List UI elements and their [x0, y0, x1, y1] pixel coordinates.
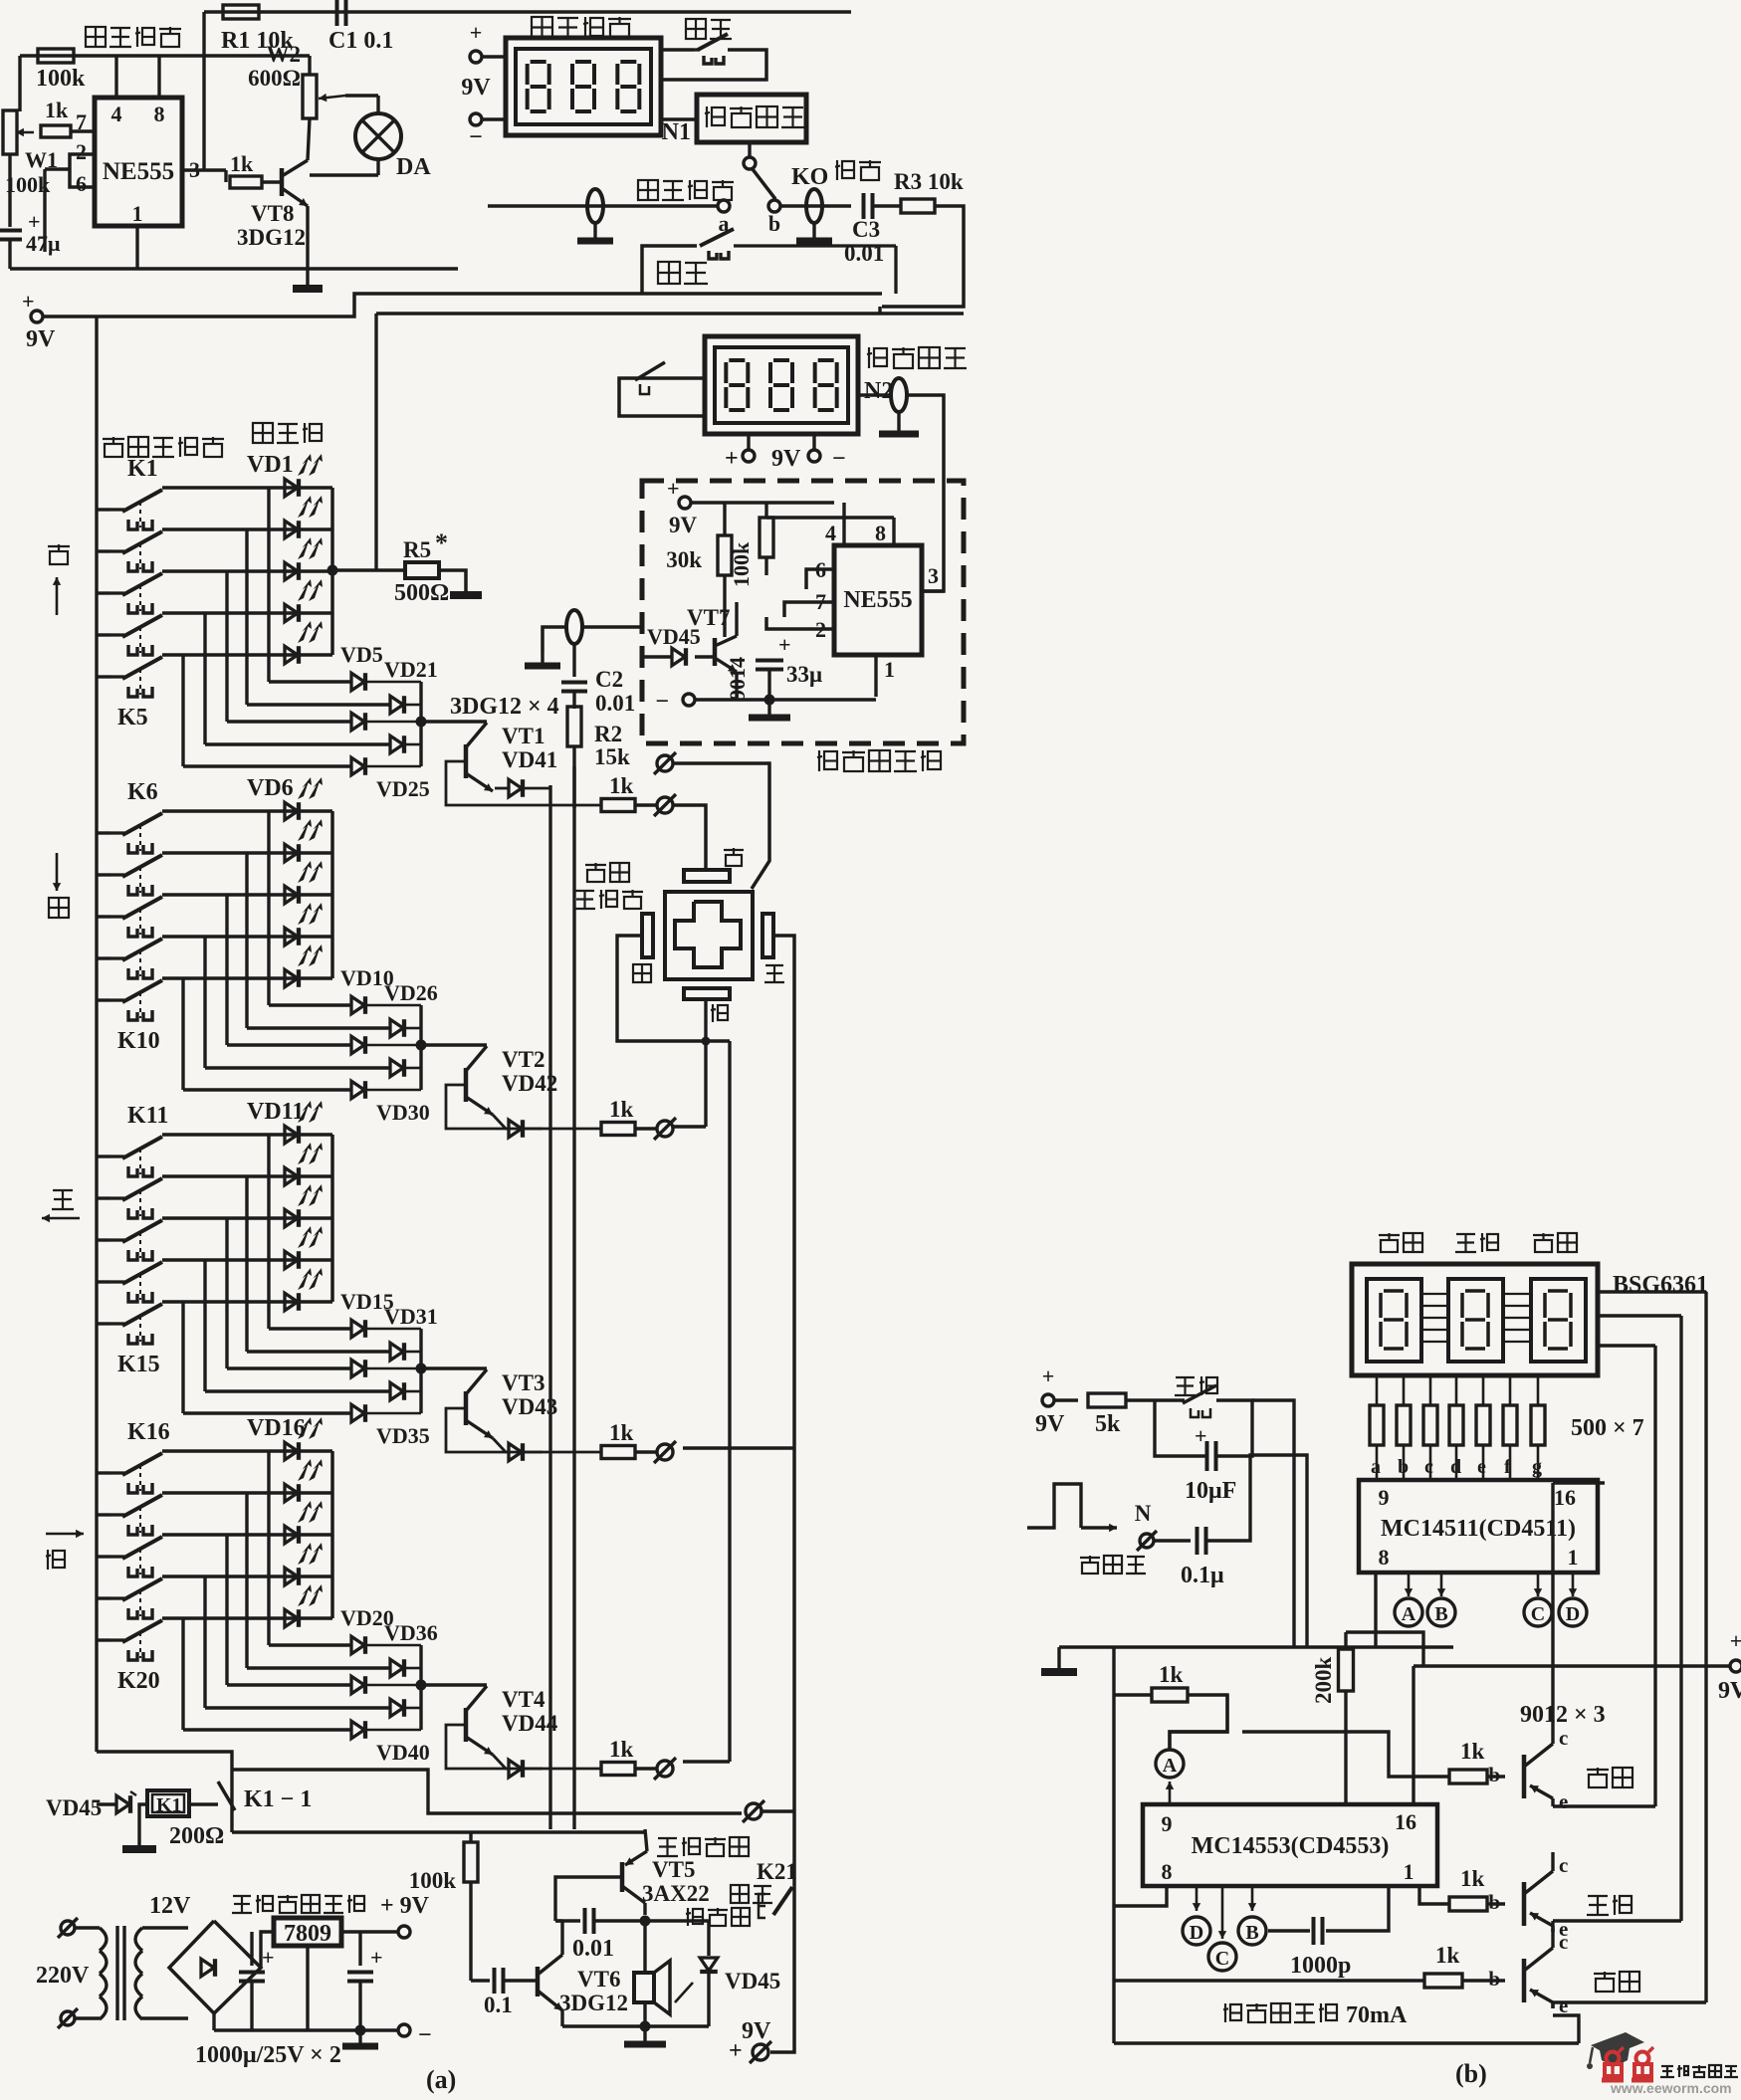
svg-text:b: b [1398, 1456, 1409, 1478]
diode cluster 3 group2 [390, 1059, 403, 1077]
wire display common 1 [1598, 1344, 1655, 1347]
svg-text:VD1: VD1 [247, 452, 294, 478]
diode VD45 (box) [672, 648, 685, 666]
wire stair 2 [225, 1218, 228, 1368]
svg-text:+: + [667, 476, 680, 501]
label question-counter 提问计数 [532, 17, 552, 38]
svg-text:C2: C2 [595, 667, 623, 692]
speaker [634, 1973, 654, 2002]
bridge rectifier [169, 1921, 261, 2013]
resistor 1k row [601, 1763, 635, 1776]
resistor 200k [1344, 1632, 1347, 1650]
wire key row 3 [162, 1258, 332, 1261]
ic U3 MC14511 [1359, 1480, 1598, 1573]
key bar right 右 [762, 914, 773, 957]
svg-text:9V: 9V [669, 513, 698, 537]
transistor 9012 #2 [1522, 1882, 1527, 1926]
label answer-counter 应答计数 [868, 347, 870, 368]
node A2 [1156, 1750, 1184, 1778]
svg-text:600Ω: 600Ω [248, 66, 301, 91]
wire d-out [405, 704, 421, 707]
wire R5 to gnd [439, 570, 466, 591]
svg-text:N2: N2 [864, 378, 893, 404]
svg-text:VD21: VD21 [384, 657, 438, 682]
svg-text:DA: DA [396, 154, 431, 180]
svg-text:f: f [1504, 1456, 1511, 1478]
svg-text:a: a [1371, 1456, 1381, 1478]
wire 9V rail [43, 294, 882, 316]
svg-text:b: b [1488, 1763, 1500, 1786]
wire pin4 stub [114, 56, 117, 98]
svg-text:VD45: VD45 [647, 624, 701, 649]
cross shape [675, 902, 741, 967]
wire 1k row1 right [674, 805, 706, 872]
wire long vert x577 [572, 766, 575, 1829]
logo 虫虫 red [1607, 2052, 1620, 2065]
wire stair 2 [225, 895, 228, 1045]
diode cluster 0 group3 [351, 1320, 364, 1338]
wire base loop [446, 1725, 601, 1769]
cluster bus [419, 682, 422, 766]
svg-text:1k: 1k [609, 773, 634, 798]
diode cluster 4 group1 [351, 757, 364, 775]
wire stair 4 [181, 1618, 184, 1730]
wire pin8 stub [157, 56, 160, 98]
transistor VT4 [421, 1683, 487, 1686]
terminal +9V left [31, 311, 43, 322]
svg-text:N1: N1 [662, 119, 691, 145]
logo text 电子下载站 [1661, 2065, 1673, 2067]
svg-text:500Ω: 500Ω [394, 580, 449, 606]
diode cluster 4 group3 [351, 1404, 364, 1422]
wire d-out [405, 1667, 421, 1670]
svg-text:K21: K21 [757, 1859, 797, 1884]
wire base loop [446, 1408, 601, 1452]
wire stair 4 [181, 655, 184, 766]
wire right-bar down [773, 936, 794, 1808]
switch (answer counter) [619, 378, 705, 416]
svg-text:0.01: 0.01 [572, 1936, 614, 1962]
wire emitter row1 [1551, 1804, 1554, 1806]
op-amp U1 NE555 timer [95, 98, 182, 226]
wire key row 1 [162, 527, 332, 530]
wire d-out [405, 1707, 421, 1710]
svg-text:9012 × 3: 9012 × 3 [1520, 1702, 1606, 1728]
wire d-out [366, 1412, 421, 1415]
ground jack left [593, 223, 596, 241]
switch K1+1 [97, 549, 110, 552]
node D2 [1196, 1886, 1198, 1911]
resistor 1k row [601, 799, 635, 812]
svg-text:3DG12 × 4: 3DG12 × 4 [450, 694, 559, 720]
label down 下 [49, 898, 69, 918]
wire bridge out [261, 1932, 274, 1968]
wire key row 2 [162, 1533, 332, 1536]
wire d-out [366, 1089, 421, 1092]
label changeover 转换开关 [638, 180, 658, 200]
display BSG6361 outer [1352, 1264, 1598, 1375]
svg-text:MC14553(CD4553): MC14553(CD4553) [1192, 1833, 1390, 1859]
svg-text:16: 16 [1395, 1809, 1416, 1834]
label up 上 [48, 545, 70, 547]
wire vert x733 [728, 1041, 731, 1762]
transistor 9012 #1 [1522, 1755, 1527, 1798]
svg-text:9: 9 [1162, 1811, 1173, 1836]
wire pin2-6 tie [70, 154, 95, 187]
wire VT8 collector [308, 118, 310, 160]
svg-text:K5: K5 [117, 705, 148, 731]
diode cluster 1 group3 [390, 1343, 403, 1361]
ground R5 [450, 591, 482, 599]
label 电源供给电路 [233, 1895, 251, 1897]
wire key row 0 [162, 809, 332, 812]
svg-text:c: c [1559, 1726, 1568, 1750]
LED VD2 group4 [285, 1526, 298, 1544]
terminal + left [470, 51, 482, 63]
display N2 应答计数 [705, 336, 858, 434]
wire key row 3 [162, 935, 332, 938]
svg-text:VD41: VD41 [502, 747, 557, 772]
wire stair 3 [203, 613, 206, 744]
svg-text:4: 4 [111, 102, 122, 126]
wire stair 1 [245, 1493, 248, 1668]
node B [1440, 1573, 1443, 1596]
label 抗干扰电路 [818, 750, 820, 771]
svg-text:+: + [1195, 1423, 1207, 1448]
diode VD42 [493, 1115, 509, 1129]
wire pin8 left [1114, 1886, 1167, 1906]
wire clear down [1252, 1400, 1294, 1647]
switch K11+1 [97, 1196, 110, 1199]
diode cluster 0 group2 [351, 996, 364, 1014]
resistor 500 #4 [1455, 1375, 1458, 1405]
jack left (oval) [587, 189, 603, 223]
diode cluster 2 group2 [351, 1036, 364, 1054]
terminal - (display2) [812, 434, 815, 450]
switch K16+4 [97, 1638, 110, 1641]
wire key row 2 [162, 569, 332, 572]
switch K11+2 [97, 1238, 110, 1241]
wire d-out [366, 1729, 421, 1732]
logo cap [1591, 2032, 1644, 2056]
label 内测 [658, 262, 680, 284]
terminal + (display2) [747, 434, 750, 450]
wire d-out [405, 1027, 421, 1030]
diode VD43 [493, 1438, 509, 1452]
wire collector up 2 [1551, 1852, 1554, 1864]
svg-text:+: + [22, 289, 35, 314]
resistor 1k (b row1) [1114, 1693, 1152, 1696]
ground (b) [1057, 1642, 1060, 1645]
wire d-out [366, 1044, 421, 1047]
resistor 500 #1 [1376, 1375, 1379, 1405]
label 十位 [1456, 1233, 1475, 1235]
svg-text:1k: 1k [230, 151, 254, 176]
terminal o-slash [635, 1450, 656, 1453]
terminal o-slash 9V bottom [753, 2044, 768, 2060]
wire stair 2 [225, 571, 228, 722]
diode cluster 3 group4 [390, 1699, 403, 1717]
wire base loop [446, 1085, 601, 1129]
switch box internal-test 内测 [642, 246, 697, 294]
wire stair 3 [203, 1576, 206, 1708]
wire collector up 1 [1551, 1483, 1554, 1737]
svg-text:g: g [1532, 1456, 1542, 1478]
transistor Q7 VT7 9014 [713, 638, 718, 666]
terminal 9V right [1730, 1660, 1741, 1672]
switch clear (b) [1155, 1398, 1185, 1401]
label left 左 [53, 1189, 73, 1191]
label 内测应答键 [731, 1885, 749, 1903]
svg-text:9V: 9V [461, 75, 491, 101]
svg-text:c: c [1559, 1853, 1568, 1877]
svg-text:0.1: 0.1 [484, 1993, 513, 2017]
wire d-out [366, 681, 421, 684]
label signal-in 信号人 [1080, 1557, 1100, 1559]
wire rail to b-side [878, 307, 881, 314]
ground (box) [767, 700, 770, 718]
wire base loop [446, 761, 601, 805]
resistor 100k vert [764, 503, 767, 518]
switch K21 [773, 1887, 792, 1915]
key pad box [665, 892, 753, 979]
wire 100k hang [469, 1832, 472, 1843]
svg-text:B: B [1245, 1922, 1258, 1944]
resistor 1k row [601, 1446, 635, 1459]
wire collector up 3 [1551, 1929, 1554, 1941]
label 个位 [1594, 1973, 1616, 1975]
wire relay frame [97, 1802, 117, 1805]
wire key row 4 [162, 653, 332, 656]
svg-text:C3: C3 [852, 217, 880, 242]
label 个位 [1533, 1234, 1554, 1236]
LED VD1 group3 [285, 1167, 298, 1185]
svg-text:47μ: 47μ [26, 231, 61, 256]
wire rail Q [232, 1830, 645, 1833]
resistor 500 #5 [1482, 1375, 1485, 1405]
diode VD44 [493, 1755, 509, 1769]
resistor 1k (base VT8) [230, 176, 262, 188]
svg-text:100k: 100k [729, 541, 754, 587]
wire left-bar loop [617, 936, 730, 1041]
transistor VT2 [421, 1043, 487, 1046]
display digit 1 [1448, 1279, 1503, 1362]
wire VT8 emitter down [306, 206, 309, 286]
svg-text:VD30: VD30 [376, 1100, 430, 1125]
wire d-out [405, 1351, 421, 1354]
svg-text:1k: 1k [609, 1737, 634, 1762]
resistor R2 15k [567, 707, 581, 746]
resistor R1 10k [223, 5, 259, 19]
diode cluster 1 group1 [390, 696, 403, 714]
resistor R5 500 [405, 562, 439, 578]
junction LED bus R5 [327, 565, 338, 576]
transistor Q8 VT8 3DG12 [280, 168, 285, 196]
display digit 2 [1531, 1279, 1586, 1362]
svg-text:e: e [1559, 1994, 1568, 2017]
wire stair 2 [225, 1535, 228, 1685]
svg-text:1: 1 [132, 201, 143, 226]
LED VD4 group1 [285, 646, 298, 664]
resistor R3 10k [874, 204, 902, 207]
LED VD2 group1 [285, 562, 298, 580]
capacitor C3 0.01 [862, 193, 866, 219]
svg-text:K10: K10 [117, 1028, 160, 1054]
wire d-out [366, 1367, 421, 1370]
svg-text:1k: 1k [1159, 1662, 1184, 1687]
svg-text:3: 3 [928, 563, 939, 588]
svg-text:1k: 1k [609, 1097, 634, 1122]
wire bottom-bar down [704, 999, 707, 1041]
wire stair 1 [245, 853, 248, 1028]
capacitor C filt1 [250, 1932, 253, 1966]
svg-text:15k: 15k [594, 744, 630, 769]
wire key row 2 [162, 893, 332, 896]
LED VD0 group1 [285, 479, 298, 497]
wire stair 0 [267, 1451, 270, 1645]
svg-text:B: B [1434, 1603, 1447, 1625]
diode cluster 0 group4 [351, 1636, 364, 1654]
terminal o-slash [635, 1767, 656, 1770]
wire pin3 out [182, 168, 226, 171]
wire stair 4 [181, 1302, 184, 1413]
wire gnd row [1059, 1645, 1453, 1648]
svg-text:200k: 200k [1311, 1657, 1336, 1705]
relay K1 coil [147, 1790, 189, 1816]
ground jack right [812, 223, 815, 241]
wire key row 4 [162, 976, 332, 979]
svg-text:R2: R2 [594, 722, 622, 746]
switch K16+2 [97, 1555, 110, 1558]
wire d-out [366, 1684, 421, 1687]
switch K1+2 [97, 591, 110, 594]
svg-text:+: + [262, 1945, 275, 1970]
resistor 500 #2 [1403, 1375, 1406, 1405]
capacitor 0.1u [1155, 1539, 1191, 1542]
label clear 清零 [686, 19, 706, 39]
pulse waveform symbol [1027, 1484, 1081, 1528]
diode VD41 [495, 787, 509, 790]
diode cluster 4 group2 [351, 1081, 364, 1099]
capacitor 10uF [1205, 1441, 1209, 1471]
terminal o-slash up [657, 755, 673, 771]
wire stair 0 [267, 811, 270, 1005]
wire stair 3 [203, 937, 206, 1068]
junction cluster [416, 717, 427, 728]
svg-text:+: + [1730, 1628, 1741, 1653]
capacitor 47u [8, 153, 11, 227]
label 发光管 [253, 423, 273, 443]
wire d-out [405, 1390, 421, 1393]
LED VD3 group2 [285, 928, 298, 945]
transistor VT1 [421, 720, 487, 723]
svg-text:70mA: 70mA [1346, 2002, 1408, 2028]
svg-text:b: b [1488, 1890, 1500, 1914]
resistor 1k row [601, 1123, 635, 1136]
wire 30k top [723, 503, 726, 535]
lamp DA [355, 113, 401, 159]
ground VT8 [293, 285, 323, 293]
svg-text:1: 1 [1404, 1859, 1415, 1884]
svg-text:200Ω: 200Ω [169, 1823, 224, 1849]
wire 7809 out [341, 1930, 398, 1933]
diode cluster 2 group3 [351, 1360, 364, 1377]
switch K11+3 [97, 1280, 110, 1283]
LED VD3 group4 [285, 1568, 298, 1585]
node C2 [1221, 1886, 1224, 1939]
svg-text:0.01: 0.01 [595, 691, 635, 716]
resistor 100k (sound) [464, 1842, 478, 1882]
wire left bus turn [97, 1752, 232, 1832]
svg-text:−: − [655, 689, 669, 715]
label 百位 [1379, 1234, 1400, 1236]
node D [1572, 1573, 1575, 1596]
wire sound bottom [560, 2010, 563, 2026]
svg-text:K15: K15 [117, 1352, 160, 1377]
LED cathode bus [330, 1135, 334, 1302]
svg-text:9V: 9V [26, 326, 56, 352]
svg-text:9V: 9V [771, 446, 801, 472]
junction cluster [416, 1364, 427, 1374]
svg-text:VD45: VD45 [46, 1795, 102, 1820]
terminal a [718, 200, 730, 212]
resistor 1k (b) row2 [1449, 1897, 1487, 1911]
ic U4 MC14553 [1143, 1804, 1437, 1886]
label 外测提问键 [103, 438, 124, 440]
svg-text:K16: K16 [127, 1419, 170, 1445]
wire top row [204, 10, 851, 14]
wire d-out [366, 1644, 421, 1647]
svg-text:VD25: VD25 [376, 776, 430, 801]
resistor 5k [1088, 1393, 1126, 1407]
cluster bus [419, 1645, 422, 1730]
LED cathode bus [330, 1451, 334, 1618]
wire key row 1 [162, 1174, 332, 1177]
wire o3 right [683, 1446, 794, 1450]
wire emitter row3 [1551, 2002, 1554, 2008]
transistor Q6 VT6 3DG12 [536, 1967, 541, 1996]
svg-text:6: 6 [76, 171, 87, 196]
svg-text:16: 16 [1554, 1485, 1576, 1510]
svg-text:8: 8 [154, 102, 165, 126]
svg-text:8: 8 [875, 521, 886, 545]
svg-text:8: 8 [1379, 1545, 1390, 1570]
ground ps [358, 2030, 361, 2046]
svg-text:K1 − 1: K1 − 1 [244, 1786, 312, 1812]
switch K6+0 [97, 831, 110, 834]
node B2 [1251, 1886, 1254, 1911]
wire 9V rail (b) [1414, 1664, 1730, 1667]
wire right loop sound [762, 1809, 794, 1813]
transistor VT3 [421, 1366, 487, 1369]
terminal o-slash N [1140, 1534, 1154, 1548]
svg-text:3DG12: 3DG12 [559, 1991, 628, 2015]
svg-text:VT2: VT2 [502, 1047, 544, 1072]
svg-text:NE555: NE555 [103, 158, 174, 185]
wire b bottom rail [1114, 2041, 1579, 2044]
wire d-out [366, 1328, 421, 1331]
svg-text:KO: KO [791, 164, 828, 190]
terminal o-slash [635, 1127, 656, 1130]
label 外测应答键 [585, 864, 606, 866]
svg-text:+: + [725, 446, 739, 472]
svg-text:K6: K6 [127, 779, 158, 805]
capacitor C filt2 [358, 1932, 361, 1966]
LED VD4 group3 [285, 1293, 298, 1311]
LED VD1 group2 [285, 844, 298, 862]
svg-text:30k: 30k [666, 547, 702, 572]
label 声响电路 [658, 1837, 677, 1839]
